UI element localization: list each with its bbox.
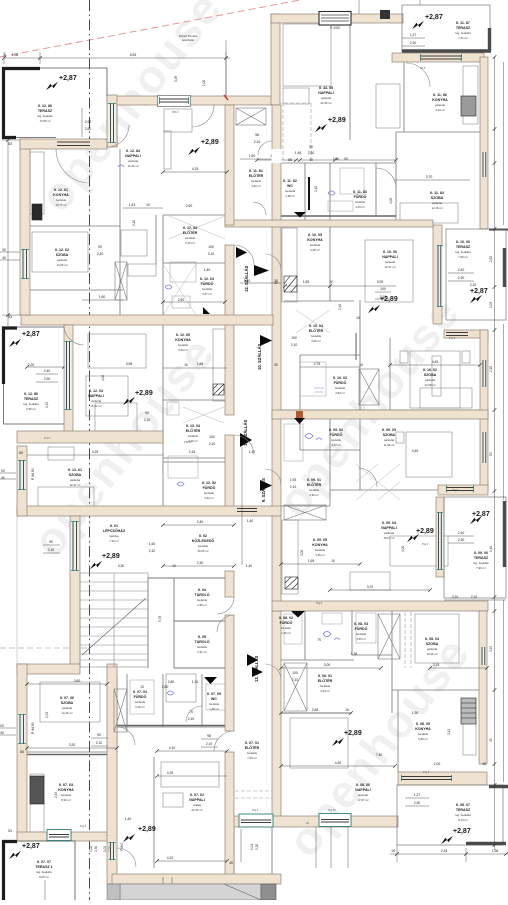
svg-text:II. 02: II. 02: [199, 534, 207, 538]
svg-text:II. 12. 86: II. 12. 86: [38, 104, 52, 108]
svg-text:+2,89: +2,89: [344, 730, 362, 737]
svg-text:2,62: 2,62: [489, 256, 493, 262]
svg-text:TERASZ: TERASZ: [474, 556, 489, 560]
svg-text:leg. bedekla: leg. bedekla: [23, 402, 39, 406]
svg-text:NAPPALI: NAPPALI: [125, 154, 141, 158]
svg-text:II. 09. 06: II. 09. 06: [474, 551, 488, 555]
svg-text:1,93: 1,93: [290, 478, 297, 482]
svg-text:2,60: 2,60: [186, 204, 193, 208]
svg-text:1,40: 1,40: [489, 546, 493, 552]
svg-text:II. 11. 82: II. 11. 82: [283, 179, 297, 183]
svg-text:16,07 m²: 16,07 m²: [383, 536, 394, 540]
svg-text:90: 90: [309, 145, 313, 149]
svg-text:2,30: 2,30: [410, 41, 417, 45]
svg-text:2,30: 2,30: [458, 276, 465, 280]
svg-text:KONYHA: KONYHA: [53, 193, 69, 197]
svg-text:16,32 m²: 16,32 m²: [90, 404, 101, 408]
svg-text:parketta: parketta: [425, 378, 436, 382]
svg-text:bedekla: bedekla: [198, 544, 208, 548]
svg-text:1,27: 1,27: [410, 33, 417, 37]
svg-text:parketta: parketta: [62, 706, 73, 710]
svg-text:KONYHA: KONYHA: [58, 788, 74, 792]
svg-text:3,00: 3,00: [324, 663, 331, 667]
svg-text:22,36 m²: 22,36 m²: [320, 101, 331, 105]
svg-text:3,00: 3,00: [300, 550, 304, 556]
svg-text:+2,87: +2,87: [470, 288, 488, 295]
svg-text:5,07 m²: 5,07 m²: [202, 292, 212, 296]
svg-text:2,90: 2,90: [44, 377, 51, 381]
svg-text:98: 98: [255, 133, 259, 137]
svg-text:7,31 m²: 7,31 m²: [458, 36, 468, 40]
svg-text:5,45 m²: 5,45 m²: [135, 705, 145, 709]
svg-text:+2,87: +2,87: [22, 843, 40, 850]
svg-text:2,91 m²: 2,91 m²: [197, 650, 207, 654]
svg-text:II. 07. 02: II. 07. 02: [190, 793, 204, 797]
svg-text:II. 05: II. 05: [198, 635, 206, 639]
svg-text:2,20: 2,20: [28, 363, 35, 367]
svg-text:4,00: 4,00: [401, 546, 405, 552]
svg-text:4,53 m²: 4,53 m²: [320, 689, 330, 693]
svg-text:17,67 m²: 17,67 m²: [357, 798, 368, 802]
svg-text:ELŐTÉR: ELŐTÉR: [309, 328, 324, 333]
svg-text:3,90: 3,90: [377, 280, 384, 284]
svg-text:II. 09. 04: II. 09. 04: [382, 521, 396, 525]
svg-text:Prg 0: Prg 0: [423, 770, 430, 774]
svg-text:II. 11. 87: II. 11. 87: [456, 21, 470, 25]
svg-text:parketta: parketta: [384, 438, 395, 442]
svg-text:szalag: szalag: [193, 803, 202, 807]
svg-text:KONYHA: KONYHA: [432, 98, 448, 102]
svg-text:bedekla: bedekla: [251, 179, 261, 183]
svg-text:II. 09. 05: II. 09. 05: [313, 538, 327, 542]
svg-text:4,30: 4,30: [335, 761, 342, 765]
svg-text:FÜRDŐ: FÜRDŐ: [330, 432, 343, 437]
svg-text:7,96 m²: 7,96 m²: [458, 255, 468, 259]
svg-text:bedekla: bedekla: [310, 243, 320, 247]
svg-text:telekhatár: telekhatár: [182, 38, 194, 42]
svg-text:3,95 m²: 3,95 m²: [315, 553, 325, 557]
svg-text:2,34: 2,34: [441, 849, 448, 853]
svg-text:parketta: parketta: [321, 96, 332, 100]
svg-text:3,30: 3,30: [118, 564, 125, 568]
svg-text:II. 11. 81: II. 11. 81: [249, 169, 263, 173]
svg-text:KÖZLEKEDŐ: KÖZLEKEDŐ: [192, 538, 215, 543]
svg-text:6,25 m²: 6,25 m²: [185, 241, 195, 245]
svg-text:2,30: 2,30: [255, 844, 259, 850]
svg-text:NAPPALI: NAPPALI: [189, 798, 205, 802]
svg-text:2,80: 2,80: [162, 685, 169, 689]
svg-text:1,00: 1,00: [202, 80, 206, 86]
svg-text:7,96 m²: 7,96 m²: [476, 566, 486, 570]
svg-text:bedekla: bedekla: [309, 488, 319, 492]
svg-text:LÉPCSŐHÁZ: LÉPCSŐHÁZ: [103, 528, 126, 533]
svg-text:12,08 m²: 12,08 m²: [424, 383, 435, 387]
svg-text:II. 08. 01: II. 08. 01: [318, 674, 332, 678]
svg-text:12,16 m²: 12,16 m²: [431, 206, 442, 210]
svg-text:10: 10: [345, 708, 349, 712]
svg-text:II. 07. 01: II. 07. 01: [245, 741, 259, 745]
svg-text:2,50: 2,50: [333, 157, 340, 161]
svg-text:2,10: 2,10: [96, 741, 103, 745]
svg-text:3,20: 3,20: [69, 743, 76, 747]
svg-text:bedekla: bedekla: [56, 198, 66, 202]
svg-text:45: 45: [229, 861, 233, 865]
svg-text:SZOBA: SZOBA: [56, 253, 69, 257]
svg-text:6,00 m²: 6,00 m²: [178, 348, 188, 352]
svg-text:1,65: 1,65: [197, 362, 204, 366]
svg-text:2,10: 2,10: [470, 283, 477, 287]
svg-text:Prg 30: Prg 30: [328, 808, 336, 812]
svg-text:1,38 m²: 1,38 m²: [285, 194, 295, 198]
svg-text:II. 04: II. 04: [198, 588, 206, 592]
svg-text:100: 100: [380, 287, 386, 291]
svg-text:bedekla: bedekla: [355, 200, 365, 204]
svg-text:1,65: 1,65: [308, 559, 315, 563]
svg-text:2,00: 2,00: [434, 762, 441, 766]
svg-text:leg. bedekla: leg. bedekla: [455, 31, 471, 35]
svg-text:+2,87: +2,87: [22, 331, 40, 338]
svg-text:Prg 0: Prg 0: [252, 808, 259, 812]
svg-text:2,10: 2,10: [254, 140, 261, 144]
svg-text:Prg 0: Prg 0: [449, 336, 456, 340]
svg-text:II. 12. 65: II. 12. 65: [176, 333, 190, 337]
svg-text:parketta: parketta: [384, 531, 395, 535]
svg-text:100: 100: [208, 245, 214, 249]
svg-text:100: 100: [209, 435, 215, 439]
svg-text:15: 15: [391, 849, 395, 853]
svg-text:II. 11. 84: II. 11. 84: [430, 191, 444, 195]
svg-text:II. 08. 05: II. 08. 05: [416, 722, 430, 726]
svg-text:2,10: 2,10: [188, 717, 195, 721]
svg-text:II. 07. 04: II. 07. 04: [133, 690, 147, 694]
svg-text:53: 53: [8, 829, 12, 833]
svg-text:bedekla: bedekla: [178, 343, 188, 347]
svg-text:2,40: 2,40: [197, 520, 204, 524]
svg-text:II. 08. 02: II. 08. 02: [279, 616, 293, 620]
svg-text:10: 10: [329, 280, 333, 284]
svg-text:NAPPALI: NAPPALI: [318, 91, 334, 95]
svg-text:3,95 m²: 3,95 m²: [310, 248, 320, 252]
svg-text:2,30: 2,30: [308, 151, 315, 155]
svg-text:2,50: 2,50: [178, 298, 185, 302]
svg-text:bedekla: bedekla: [197, 598, 207, 602]
svg-text:FÜRDŐ: FÜRDŐ: [355, 626, 368, 631]
svg-text:1,26 m²: 1,26 m²: [281, 631, 291, 635]
svg-text:II. 10. 06: II. 10. 06: [383, 250, 397, 254]
svg-text:ELŐTÉR: ELŐTÉR: [245, 745, 260, 750]
svg-text:P48 0: P48 0: [120, 842, 124, 851]
svg-text:4,55 m²: 4,55 m²: [356, 637, 366, 641]
svg-text:1,90: 1,90: [412, 711, 419, 715]
svg-text:II. 12. 61: II. 12. 61: [54, 188, 68, 192]
svg-text:Prg 0: Prg 0: [452, 488, 459, 492]
svg-text:1,01: 1,01: [250, 844, 254, 850]
svg-text:10: 10: [140, 685, 144, 689]
svg-text:ELŐTÉR: ELŐTÉR: [318, 678, 333, 683]
svg-text:bedekla: bedekla: [135, 700, 145, 704]
svg-text:12,47 m²: 12,47 m²: [69, 483, 80, 487]
svg-text:6,86 m²: 6,86 m²: [418, 737, 428, 741]
svg-text:4,25: 4,25: [167, 771, 174, 775]
svg-text:90: 90: [98, 245, 102, 249]
svg-text:7,40: 7,40: [376, 753, 383, 757]
svg-text:SZOBA: SZOBA: [61, 701, 74, 705]
svg-text:8,05 m²: 8,05 m²: [39, 875, 49, 879]
svg-text:15: 15: [356, 316, 360, 320]
svg-text:3,15: 3,15: [433, 663, 440, 667]
svg-text:4,45: 4,45: [432, 360, 439, 364]
svg-text:10: 10: [359, 363, 363, 367]
svg-text:leg. bedekla: leg. bedekla: [455, 250, 471, 254]
svg-text:4,25: 4,25: [92, 450, 99, 454]
svg-text:+2,89: +2,89: [138, 826, 156, 833]
svg-text:73,55 m²: 73,55 m²: [39, 119, 50, 123]
svg-text:1,48: 1,48: [295, 151, 302, 155]
svg-text:4,13 m²: 4,13 m²: [435, 108, 445, 112]
svg-text:53: 53: [8, 315, 12, 319]
svg-text:SZOBA: SZOBA: [431, 196, 444, 200]
svg-text:7,20 m²: 7,20 m²: [109, 539, 119, 543]
svg-text:SZOBA: SZOBA: [424, 373, 437, 377]
svg-text:1,60: 1,60: [99, 295, 106, 299]
svg-text:1,65: 1,65: [303, 280, 310, 284]
svg-text:1,08: 1,08: [12, 53, 19, 57]
svg-text:2,40: 2,40: [458, 268, 465, 272]
svg-text:2,93: 2,93: [45, 712, 49, 718]
svg-text:3,95: 3,95: [126, 362, 133, 366]
svg-text:II. 07. 03: II. 07. 03: [59, 783, 73, 787]
svg-text:Prg 0: Prg 0: [80, 824, 87, 828]
svg-text:fal tekla: fal tekla: [281, 626, 291, 630]
svg-text:100: 100: [291, 336, 297, 340]
svg-text:10: 10: [146, 203, 150, 207]
svg-text:TERASZ: TERASZ: [38, 109, 53, 113]
svg-text:12. SZÁLLÁS: 12. SZÁLLÁS: [244, 266, 249, 292]
svg-text:1,10: 1,10: [192, 680, 199, 684]
svg-text:1,40: 1,40: [125, 817, 132, 821]
svg-text:II. 07. 07: II. 07. 07: [37, 860, 51, 864]
svg-text:P 4/90: P 4/90: [330, 26, 340, 30]
svg-text:5,53: 5,53: [130, 53, 137, 57]
svg-text:2,30: 2,30: [94, 846, 98, 852]
svg-text:+2,89: +2,89: [328, 117, 346, 124]
svg-text:P 44 90: P 44 90: [31, 722, 35, 734]
svg-text:bedekla: bedekla: [320, 684, 330, 688]
svg-text:3,15: 3,15: [489, 646, 493, 652]
svg-text:40: 40: [0, 731, 4, 735]
svg-text:bedekla: bedekla: [188, 434, 198, 438]
svg-text:00: 00: [1, 469, 5, 473]
svg-text:bedekla: bedekla: [335, 386, 345, 390]
svg-text:TERASZ 1: TERASZ 1: [35, 865, 52, 869]
svg-text:2,10: 2,10: [149, 549, 156, 553]
svg-text:FÜRDŐ: FÜRDŐ: [280, 620, 293, 625]
svg-text:SZOBA: SZOBA: [69, 473, 82, 477]
svg-text:II. 08. 07: II. 08. 07: [456, 803, 470, 807]
svg-text:2,40: 2,40: [44, 369, 51, 373]
svg-text:P48 0: P48 0: [184, 440, 191, 444]
svg-text:10: 10: [172, 564, 176, 568]
svg-text:13. SZÁLLÁS: 13. SZÁLLÁS: [254, 656, 259, 682]
svg-text:2,10: 2,10: [209, 442, 216, 446]
svg-text:2,95 m²: 2,95 m²: [197, 603, 207, 607]
svg-text:16,37 m²: 16,37 m²: [384, 265, 395, 269]
svg-text:16,32 m²: 16,32 m²: [127, 164, 138, 168]
svg-text:1,40: 1,40: [247, 519, 254, 523]
svg-text:SZOBA: SZOBA: [383, 433, 396, 437]
svg-text:2,10: 2,10: [290, 485, 297, 489]
svg-text:2,10: 2,10: [380, 295, 387, 299]
svg-text:1,03: 1,03: [489, 302, 493, 308]
svg-text:98: 98: [207, 734, 211, 738]
svg-text:NAPPALI: NAPPALI: [88, 394, 104, 398]
svg-text:Prg 0: Prg 0: [422, 542, 429, 546]
svg-text:3,60: 3,60: [74, 679, 81, 683]
svg-text:00: 00: [0, 724, 4, 728]
svg-text:2,10: 2,10: [132, 220, 136, 226]
svg-text:1,02: 1,02: [89, 846, 93, 852]
svg-text:2,80: 2,80: [168, 680, 175, 684]
svg-text:45: 45: [482, 762, 486, 766]
svg-text:1,02: 1,02: [103, 846, 107, 852]
svg-text:1,36: 1,36: [492, 849, 499, 853]
svg-text:bedekla: bedekla: [202, 287, 212, 291]
svg-text:leg. bedekla: leg. bedekla: [37, 114, 53, 118]
svg-text:22,56 m²: 22,56 m²: [191, 808, 202, 812]
svg-text:4,25: 4,25: [192, 167, 199, 171]
svg-text:II. 11. 83: II. 11. 83: [353, 190, 367, 194]
svg-text:85: 85: [19, 451, 23, 455]
svg-text:100: 100: [292, 671, 298, 675]
svg-text:P 44 90: P 44 90: [31, 468, 35, 480]
svg-text:+2,89: +2,89: [201, 139, 219, 146]
svg-text:karioka: karioka: [109, 534, 118, 538]
svg-text:bedekla: bedekla: [204, 491, 214, 495]
svg-text:II. 08. 03: II. 08. 03: [354, 622, 368, 626]
svg-text:2,40: 2,40: [458, 531, 465, 535]
svg-text:+2,87: +2,87: [59, 75, 77, 82]
svg-text:2,40: 2,40: [338, 304, 342, 310]
svg-text:1,40: 1,40: [246, 564, 253, 568]
svg-text:ELŐTÉR: ELŐTÉR: [186, 428, 201, 433]
svg-text:30: 30: [274, 363, 278, 367]
svg-text:90: 90: [49, 540, 53, 544]
svg-text:53: 53: [8, 142, 12, 146]
svg-text:0,98: 0,98: [174, 76, 178, 82]
svg-text:40: 40: [2, 256, 6, 260]
svg-text:II. 10. 05: II. 10. 05: [308, 233, 322, 237]
svg-text:SZOBA: SZOBA: [426, 642, 439, 646]
svg-text:II. 12. 62: II. 12. 62: [55, 248, 69, 252]
svg-text:ELŐTÉR: ELŐTÉR: [183, 230, 198, 235]
svg-text:2,10: 2,10: [489, 366, 493, 372]
svg-text:parketta: parketta: [91, 399, 102, 403]
svg-text:bedekla: bedekla: [285, 189, 295, 193]
svg-text:8,13 m²: 8,13 m²: [458, 818, 468, 822]
svg-text:II. 12. 61: II. 12. 61: [68, 468, 82, 472]
svg-text:II. 11. 86: II. 11. 86: [433, 93, 447, 97]
svg-text:40: 40: [1, 476, 5, 480]
svg-text:2,92: 2,92: [45, 402, 49, 408]
svg-text:TERASZ: TERASZ: [456, 808, 471, 812]
svg-text:45: 45: [489, 738, 493, 742]
svg-text:50: 50: [344, 157, 348, 161]
svg-text:parketta: parketta: [427, 647, 438, 651]
svg-text:II. 08. 06: II. 08. 06: [356, 783, 370, 787]
svg-text:KONYHA: KONYHA: [175, 338, 191, 342]
svg-text:TERASZ: TERASZ: [24, 397, 39, 401]
svg-text:bedekla: bedekla: [209, 702, 219, 706]
svg-text:II. 12. 84: II. 12. 84: [126, 149, 140, 153]
svg-text:bedekla: bedekla: [331, 438, 341, 442]
svg-text:4,43 m²: 4,43 m²: [355, 205, 365, 209]
svg-text:3,52 m²: 3,52 m²: [204, 496, 214, 500]
svg-text:II. 10. 06: II. 10. 06: [456, 240, 470, 244]
svg-text:+2,87: +2,87: [425, 14, 443, 21]
svg-text:1,40: 1,40: [204, 268, 211, 272]
svg-text:2,80: 2,80: [85, 127, 92, 131]
svg-text:2,30: 2,30: [414, 801, 421, 805]
svg-text:bedekla: bedekla: [356, 632, 366, 636]
svg-text:4,53 m²: 4,53 m²: [335, 391, 345, 395]
svg-text:parketta: parketta: [128, 159, 139, 163]
svg-text:laminalt: laminalt: [358, 793, 368, 797]
svg-text:1,27: 1,27: [414, 793, 421, 797]
svg-text:bedekla: bedekla: [315, 548, 325, 552]
svg-text:85: 85: [20, 750, 24, 754]
svg-text:P45 0: P45 0: [172, 110, 179, 114]
svg-text:II. 01: II. 01: [110, 524, 118, 528]
svg-text:TERASZ: TERASZ: [456, 245, 471, 249]
svg-text:bedekla: bedekla: [311, 334, 321, 338]
svg-text:13,06 m²: 13,06 m²: [426, 652, 437, 656]
svg-text:FÜRDŐ: FÜRDŐ: [201, 281, 214, 286]
svg-text:II. 07. 06: II. 07. 06: [60, 696, 74, 700]
svg-text:II. 12. 63: II. 12. 63: [200, 277, 214, 281]
svg-text:4,00: 4,00: [389, 198, 393, 204]
svg-text:TÁROLÓ: TÁROLÓ: [194, 639, 209, 644]
svg-text:+2,89: +2,89: [102, 553, 120, 560]
svg-text:1,40: 1,40: [249, 450, 256, 454]
svg-text:2,10: 2,10: [144, 418, 151, 422]
svg-text:II. 13. 04: II. 13. 04: [186, 424, 200, 428]
svg-text:II. 10. 02: II. 10. 02: [423, 368, 437, 372]
svg-text:TÁROLÓ: TÁROLÓ: [194, 592, 209, 597]
svg-text:2,30: 2,30: [458, 538, 465, 542]
svg-text:3,96 m²: 3,96 m²: [311, 339, 321, 343]
svg-text:2,10: 2,10: [208, 252, 215, 256]
svg-text:parketta: parketta: [385, 260, 396, 264]
svg-text:Prg 0: Prg 0: [316, 601, 323, 605]
svg-text:4,38 m²: 4,38 m²: [309, 493, 319, 497]
svg-text:bedekla: bedekla: [247, 751, 257, 755]
svg-text:II. 44. 55: II. 44. 55: [319, 86, 333, 90]
svg-text:II. 12. 04: II. 12. 04: [89, 389, 103, 393]
svg-text:5,78: 5,78: [158, 616, 162, 622]
svg-text:4,62 m²: 4,62 m²: [251, 184, 261, 188]
svg-text:KONYHA: KONYHA: [307, 238, 323, 242]
svg-text:II. 10. 04: II. 10. 04: [309, 324, 323, 328]
svg-text:bedekla: bedekla: [185, 236, 195, 240]
svg-text:II. 08. 04: II. 08. 04: [425, 637, 439, 641]
svg-text:II. 12. 86: II. 12. 86: [24, 392, 38, 396]
svg-text:3,70: 3,70: [367, 585, 374, 589]
svg-text:NAPPALI: NAPPALI: [382, 255, 398, 259]
svg-text:2,10: 2,10: [206, 742, 213, 746]
svg-text:FÜRDŐ: FÜRDŐ: [354, 194, 367, 199]
svg-text:2,10: 2,10: [314, 186, 318, 192]
svg-text:NAPPALI: NAPPALI: [355, 788, 371, 792]
